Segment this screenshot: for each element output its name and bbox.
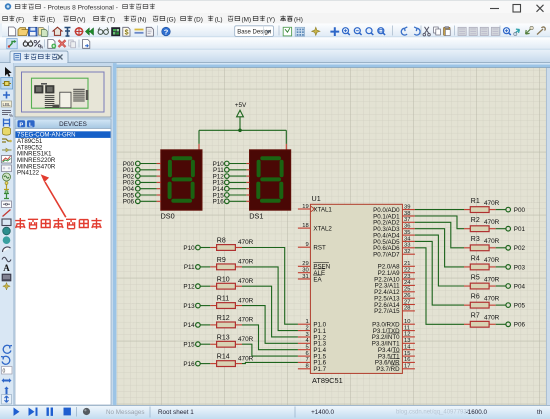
svg-text:P04: P04	[514, 283, 526, 290]
7-segment display DS0	[161, 150, 203, 221]
terminal P13 (display side)	[213, 180, 230, 187]
svg-text:26: 26	[404, 293, 410, 299]
terminal P00 (left)	[123, 161, 140, 168]
svg-text:A: A	[3, 263, 10, 273]
terminal P03 (right)	[506, 264, 526, 271]
svg-text:21: 21	[404, 261, 410, 267]
svg-text:470R: 470R	[238, 278, 254, 285]
svg-text:2: 2	[305, 325, 308, 331]
svg-text:U1: U1	[312, 194, 321, 203]
svg-text:R10: R10	[217, 276, 230, 283]
wire P11 to DS1 pin	[229, 169, 249, 171]
svg-text:(M): (M)	[242, 16, 252, 23]
wire P04 to DS0 pin	[140, 188, 161, 190]
svg-text:No Messages: No Messages	[106, 409, 145, 416]
wire R3 to P02	[496, 247, 506, 249]
svg-text:P: P	[19, 122, 23, 128]
svg-text:-1600.0: -1600.0	[466, 409, 488, 416]
svg-text:470R: 470R	[484, 238, 500, 245]
svg-text:th: th	[537, 409, 543, 416]
wire P13 to DS1 pin	[229, 181, 249, 183]
svg-text:R12: R12	[217, 315, 230, 322]
svg-text:470R: 470R	[238, 297, 254, 304]
svg-text:470R: 470R	[238, 239, 254, 246]
svg-text:34: 34	[404, 236, 411, 242]
svg-text:R1: R1	[471, 198, 480, 205]
pin 30 ALE	[298, 268, 325, 278]
svg-text:(E): (E)	[47, 16, 56, 23]
wire R12 to pin 5	[242, 325, 298, 350]
7-segment display DS1	[249, 150, 291, 221]
svg-text:R9: R9	[217, 257, 226, 264]
wire pin 38 to R2	[415, 216, 464, 229]
wire R9 to pin 2	[242, 267, 298, 331]
svg-text:(L): (L)	[215, 16, 223, 23]
clock marker on XTAL1	[311, 206, 314, 211]
wire +5V rail	[199, 129, 286, 131]
svg-text:P01: P01	[514, 226, 526, 233]
wire pin 36 to R4	[415, 229, 464, 267]
terminal P13 (resistor side)	[183, 303, 200, 310]
pin 9 RST	[298, 242, 326, 252]
svg-text:3: 3	[305, 332, 308, 338]
svg-text:27: 27	[404, 299, 410, 305]
pin 19 XTAL1	[298, 204, 333, 214]
pin 7 P1.6	[298, 357, 327, 367]
pin 1 P1.0	[298, 319, 327, 329]
svg-text:33: 33	[404, 243, 410, 249]
svg-text:(T): (T)	[107, 16, 115, 23]
svg-text:38: 38	[404, 211, 410, 217]
svg-text:36: 36	[404, 224, 410, 230]
resistor R14 470R	[210, 354, 253, 367]
terminal P00 (right)	[506, 207, 526, 214]
svg-text:P3.7/RD: P3.7/RD	[376, 366, 400, 373]
wire P15 to DS1 pin	[229, 194, 249, 196]
svg-text:P02: P02	[514, 245, 526, 252]
wire P12 to DS1 pin	[229, 175, 249, 177]
svg-text:31: 31	[302, 274, 308, 280]
svg-text:470R: 470R	[238, 336, 254, 343]
wire R6 to P05	[496, 304, 506, 306]
terminal P16 (display side)	[213, 199, 230, 206]
svg-text:470R: 470R	[484, 200, 500, 207]
wire pin 34 to R6	[415, 241, 464, 305]
svg-text:15: 15	[404, 351, 410, 357]
wire P13 to R11	[200, 305, 210, 307]
svg-text:32: 32	[404, 249, 410, 255]
svg-text:7: 7	[305, 357, 308, 363]
svg-text:R13: R13	[217, 334, 230, 341]
svg-text:22: 22	[404, 267, 410, 273]
wire pin 33 to R7	[415, 248, 464, 324]
wire P03 to DS0 pin	[140, 181, 161, 183]
wire rail to DS0 anode	[198, 130, 200, 144]
svg-text:5: 5	[305, 345, 308, 351]
svg-text:470R: 470R	[484, 257, 500, 264]
svg-text:11: 11	[404, 325, 410, 331]
pin 14 P3.4/T0	[378, 344, 415, 354]
pin 27 P2.6/A14	[374, 299, 415, 309]
pin 22 P2.1/A9	[378, 267, 415, 277]
pin 6 P1.5	[298, 351, 327, 361]
svg-text:9: 9	[305, 242, 308, 248]
svg-text:R6: R6	[471, 294, 480, 301]
svg-text:17: 17	[404, 364, 410, 370]
svg-text:18: 18	[302, 223, 308, 229]
wire P16 to R14	[200, 363, 210, 365]
svg-text:6: 6	[305, 351, 308, 357]
svg-text:EA: EA	[313, 276, 322, 283]
wire P12 to R10	[200, 285, 210, 287]
power +5V	[235, 102, 247, 130]
pin 37 P0.2/AD2	[373, 217, 415, 227]
wire rail to DS1 anode	[285, 130, 287, 144]
pin 23 P2.2/A10	[374, 274, 415, 284]
terminal P01 (right)	[506, 226, 526, 233]
pin 16 P3.6/WR	[375, 357, 415, 367]
pin 36 P0.3/AD3	[373, 224, 415, 234]
terminal P01 (left)	[123, 167, 140, 174]
terminal P14 (resistor side)	[183, 322, 200, 329]
svg-text:%: %	[9, 113, 13, 118]
svg-text:P1.7: P1.7	[313, 366, 326, 373]
terminal P11 (resistor side)	[184, 264, 200, 271]
terminal P05 (left)	[123, 192, 140, 199]
pin 5 P1.4	[298, 345, 327, 355]
wire P15 to R13	[200, 343, 210, 345]
pin 8 P1.7	[298, 364, 327, 374]
pin 24 P2.3/A11	[375, 280, 415, 290]
wire P10 to DS1 pin	[229, 163, 249, 165]
terminal P05 (right)	[506, 303, 526, 310]
wire R7 to P06	[496, 323, 506, 325]
resistor R5 470R	[464, 274, 500, 289]
svg-text:470R: 470R	[484, 315, 500, 322]
svg-text:P06: P06	[123, 199, 135, 206]
pin 25 P2.4/A12	[374, 287, 415, 297]
resistor R8 470R	[210, 238, 253, 251]
wire R10 to pin 3	[242, 286, 298, 337]
svg-text:470R: 470R	[238, 259, 254, 266]
pin 11 P3.1/TXD	[373, 325, 415, 335]
svg-text:14: 14	[404, 344, 411, 350]
svg-text:R8: R8	[217, 238, 226, 245]
pin 29 PSEN	[298, 261, 330, 271]
svg-text:blog.csdn.net/qq_40977936: blog.csdn.net/qq_40977936	[396, 410, 471, 416]
terminal P14 (display side)	[213, 186, 230, 193]
wire P14 to R12	[200, 324, 210, 326]
svg-text:(Y): (Y)	[267, 16, 276, 23]
pin 34 P0.5/AD5	[373, 236, 415, 246]
resistor R10 470R	[210, 276, 253, 289]
svg-text:+1400.0: +1400.0	[311, 409, 334, 416]
svg-text:P05: P05	[514, 303, 526, 310]
svg-text:L: L	[29, 122, 33, 128]
svg-text:P16: P16	[213, 199, 225, 206]
terminal P04 (left)	[123, 186, 140, 193]
pin 3 P1.2	[298, 332, 327, 342]
wire P06 to DS0 pin	[140, 200, 161, 202]
svg-text:Root sheet 1: Root sheet 1	[158, 409, 194, 416]
svg-text:25: 25	[404, 287, 410, 293]
svg-text:+5V: +5V	[235, 102, 247, 109]
wire pin 35 to R5	[415, 235, 464, 286]
wire pin 39 to R1	[415, 209, 464, 211]
terminal P03 (left)	[123, 180, 140, 187]
svg-text:LBL: LBL	[2, 102, 11, 107]
wire P10 to R8	[200, 247, 210, 249]
svg-text:P06: P06	[514, 322, 526, 329]
svg-text:P16: P16	[183, 361, 195, 368]
pin 12 P3.2/INT0	[372, 332, 415, 342]
svg-text:P00: P00	[514, 207, 526, 214]
terminal P02 (left)	[123, 173, 140, 180]
svg-text:(N): (N)	[138, 16, 147, 23]
svg-text:39: 39	[404, 204, 410, 210]
pin 35 P0.4/AD4	[373, 230, 415, 240]
svg-text:12: 12	[404, 332, 410, 338]
svg-text:37: 37	[404, 217, 410, 223]
svg-text:P11: P11	[184, 264, 195, 271]
terminal P12 (display side)	[213, 173, 230, 180]
pin 26 P2.5/A13	[374, 293, 415, 303]
pin 31 EA	[298, 274, 323, 284]
svg-text:R4: R4	[471, 255, 480, 262]
terminal P04 (right)	[506, 283, 526, 290]
svg-text:(H): (H)	[294, 16, 303, 23]
wire P16 to DS1 pin	[229, 200, 249, 202]
terminal P06 (left)	[123, 199, 140, 206]
svg-text:(V): (V)	[77, 16, 86, 23]
svg-text:RST: RST	[313, 245, 326, 252]
svg-text:P15: P15	[183, 342, 195, 349]
svg-text:DS0: DS0	[161, 211, 175, 220]
terminal P02 (right)	[506, 245, 526, 252]
svg-text:29: 29	[302, 261, 308, 267]
resistor R4 470R	[464, 255, 500, 270]
svg-text:470R: 470R	[484, 295, 500, 302]
wire P01 to DS0 pin	[140, 169, 161, 171]
svg-text:(F): (F)	[16, 16, 24, 23]
pin 15 P3.5/T1	[378, 351, 415, 361]
terminal P16 (resistor side)	[183, 361, 200, 368]
wire P11 to R9	[200, 266, 210, 268]
wire R2 to P01	[496, 228, 506, 230]
pin 32 P0.7/AD7	[373, 249, 415, 258]
svg-text:1: 1	[305, 319, 308, 325]
svg-text:P12: P12	[183, 284, 195, 291]
svg-text:R7: R7	[471, 313, 480, 320]
resistor R3 470R	[464, 236, 500, 251]
svg-text:R14: R14	[217, 354, 230, 361]
svg-text:P2.7/A15: P2.7/A15	[374, 308, 400, 315]
svg-text:35: 35	[404, 230, 410, 236]
svg-text:28: 28	[404, 306, 410, 312]
wire R1 to P00	[496, 209, 506, 211]
pin 10 P3.0/RXD	[372, 319, 415, 329]
terminal P06 (right)	[506, 322, 526, 329]
svg-text:24: 24	[404, 280, 411, 286]
terminal P15 (resistor side)	[183, 342, 200, 349]
svg-text:0: 0	[3, 369, 6, 375]
svg-text:10: 10	[404, 319, 410, 325]
wire P14 to DS1 pin	[229, 188, 249, 190]
svg-text:PN4122: PN4122	[17, 170, 40, 177]
terminal P10 (display side)	[213, 161, 230, 168]
terminal P10 (resistor side)	[183, 245, 200, 252]
svg-text:470R: 470R	[238, 317, 254, 324]
svg-text:DS1: DS1	[249, 211, 263, 220]
svg-text:DEVICES: DEVICES	[59, 121, 87, 128]
pin 4 P1.3	[298, 338, 327, 348]
svg-text:30: 30	[302, 268, 308, 274]
wire P02 to DS0 pin	[140, 175, 161, 177]
resistor R11 470R	[210, 296, 253, 309]
wire R14 to pin 7	[242, 362, 298, 363]
terminal P11 (display side)	[213, 167, 229, 174]
resistor R7 470R	[464, 313, 500, 327]
svg-text:AT89C51: AT89C51	[312, 376, 343, 385]
svg-text:XTAL1: XTAL1	[313, 206, 332, 213]
resistor R6 470R	[464, 294, 500, 309]
svg-text:P0.7/AD7: P0.7/AD7	[373, 251, 400, 258]
IC U1 AT89C51	[310, 194, 402, 385]
pin 38 P0.1/AD1	[373, 211, 415, 221]
svg-text:470R: 470R	[238, 355, 254, 362]
resistor R1 470R	[464, 198, 500, 213]
wire R8 to pin 1	[242, 248, 298, 325]
svg-text:13: 13	[404, 338, 410, 344]
svg-text:- Proteus 8 Professional -: - Proteus 8 Professional -	[44, 4, 118, 11]
wire R11 to pin 4	[242, 306, 298, 344]
pin 18 XTAL2	[298, 223, 333, 233]
svg-text:8: 8	[305, 364, 308, 370]
wire pin 37 to R3	[415, 222, 464, 248]
terminal P15 (display side)	[213, 192, 230, 199]
resistor R12 470R	[210, 315, 253, 328]
terminal P12 (resistor side)	[183, 284, 200, 291]
wire R13 to pin 6	[242, 344, 298, 356]
pin 21 P2.0/A8	[378, 261, 415, 271]
pin 39 P0.0/AD0	[373, 204, 415, 214]
svg-text:R2: R2	[471, 217, 480, 224]
svg-text:R3: R3	[471, 236, 480, 243]
resistor R2 470R	[464, 217, 500, 232]
svg-text:P10: P10	[183, 245, 195, 252]
svg-text:(G): (G)	[167, 16, 176, 23]
svg-text:R11: R11	[217, 296, 229, 303]
svg-text:470R: 470R	[484, 276, 500, 283]
svg-text:P03: P03	[514, 264, 526, 271]
pin 13 P3.3/INT1	[372, 338, 415, 348]
svg-text:(D): (D)	[194, 16, 203, 23]
svg-text:?: ?	[164, 28, 169, 37]
wire P00 to DS0 pin	[140, 163, 161, 165]
svg-text:P13: P13	[183, 303, 195, 310]
pin 17 P3.7/RD	[376, 364, 415, 374]
svg-text:$: $	[125, 30, 129, 37]
svg-text:P14: P14	[183, 322, 195, 329]
pin 33 P0.6/AD6	[373, 243, 415, 253]
svg-text:19: 19	[302, 204, 308, 210]
junction at +5V rail	[238, 129, 242, 133]
wire R5 to P04	[496, 285, 506, 287]
pin 2 P1.1	[298, 325, 327, 335]
svg-text:23: 23	[404, 274, 410, 280]
pin 28 P2.7/A15	[374, 306, 415, 316]
svg-text:R5: R5	[471, 274, 480, 281]
svg-text:470R: 470R	[484, 219, 500, 226]
svg-text:16: 16	[404, 357, 410, 363]
wire R4 to P03	[496, 266, 506, 268]
wire P05 to DS0 pin	[140, 194, 161, 196]
svg-text:XTAL2: XTAL2	[313, 225, 332, 232]
resistor R13 470R	[210, 334, 253, 347]
resistor R9 470R	[210, 257, 253, 270]
